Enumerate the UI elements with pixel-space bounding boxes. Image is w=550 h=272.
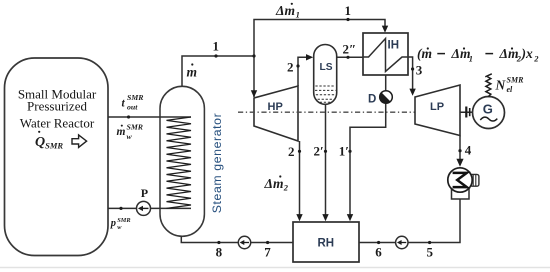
LS liquid fill	[315, 86, 335, 102]
arrow into RH from D	[347, 214, 353, 221]
node 8	[217, 241, 220, 244]
arrow into RH from HP	[296, 214, 302, 221]
generator G	[473, 97, 505, 129]
IH heat exchanger box	[363, 33, 408, 75]
svg-text:4: 4	[465, 142, 472, 157]
LS separator vessel	[314, 45, 337, 105]
condenser hotwell	[452, 176, 470, 199]
node 6	[377, 241, 380, 244]
svg-text:SMR: SMR	[507, 76, 525, 85]
node 7	[266, 241, 269, 244]
reactor vessel SMR	[5, 58, 109, 256]
wire: condensate to rail (5)	[359, 199, 460, 243]
svg-text:LS: LS	[320, 62, 333, 73]
arrow into IH top	[382, 26, 388, 33]
condensate pump	[396, 236, 408, 248]
node 4	[458, 149, 461, 152]
svg-text:(m: (m	[417, 46, 432, 61]
svg-text:G: G	[483, 101, 493, 116]
node on hot leg	[127, 115, 130, 118]
LP turbine	[415, 85, 460, 136]
junction node at riser	[252, 54, 255, 57]
svg-text:HP: HP	[268, 101, 283, 113]
condenser shell	[448, 168, 472, 192]
SG coil	[167, 117, 192, 208]
svg-text:1′: 1′	[339, 144, 349, 159]
HP turbine	[254, 86, 298, 141]
svg-text:6: 6	[375, 245, 382, 260]
svg-text:)x: )x	[520, 46, 533, 61]
arrow into RH from LS	[322, 214, 328, 221]
node 2'	[324, 150, 327, 153]
svg-text:w: w	[127, 132, 133, 141]
wire: SG steam outlet to riser	[182, 56, 254, 86]
wire: IH to LP (3)	[408, 57, 413, 91]
wire: LS vapor to IH (2'')	[337, 56, 363, 58]
svg-text:D: D	[368, 93, 376, 105]
electrical lead zigzag	[486, 77, 491, 97]
node on cold leg	[119, 207, 122, 210]
page rule at bottom	[0, 267, 550, 269]
svg-text:7: 7	[264, 245, 271, 260]
svg-text:Δm: Δm	[499, 46, 519, 61]
wire: LP exhaust to condenser (4)	[459, 136, 461, 162]
svg-text:Δm: Δm	[275, 3, 295, 18]
svg-text:m: m	[187, 65, 198, 80]
svg-text:Pressurized: Pressurized	[27, 99, 87, 114]
svg-text:RH: RH	[318, 237, 335, 249]
svg-text:1: 1	[296, 10, 300, 20]
arrow into condenser	[456, 159, 463, 167]
svg-text:1: 1	[469, 54, 473, 64]
wire: HP top to LS	[298, 57, 309, 86]
svg-text:m: m	[117, 126, 126, 138]
reactor label text	[18, 86, 97, 130]
svg-text:8: 8	[216, 245, 223, 260]
pump P	[137, 201, 151, 215]
svg-text:Water Reactor: Water Reactor	[20, 115, 95, 130]
node 1 on SG outlet	[214, 54, 217, 57]
node 2''	[346, 56, 349, 59]
steam generator vessel	[160, 86, 204, 236]
svg-text:N: N	[495, 78, 507, 93]
svg-text:2: 2	[288, 144, 295, 159]
heat arrow	[72, 135, 87, 148]
wire: feedwater rail RH to SG	[181, 236, 293, 242]
sine symbol	[480, 117, 497, 121]
wire: cold leg reactor to SG	[108, 207, 191, 209]
wire: LS drain to RH (2')	[325, 104, 327, 216]
svg-text:SMR: SMR	[117, 217, 130, 224]
svg-text:Steam generator: Steam generator	[210, 113, 224, 214]
node 1'	[348, 150, 351, 153]
svg-text:3: 3	[416, 63, 423, 78]
svg-text:p: p	[110, 218, 116, 229]
svg-text:P: P	[141, 186, 148, 200]
svg-text:2: 2	[287, 59, 294, 74]
svg-text:el: el	[507, 85, 514, 94]
node 5	[428, 241, 431, 244]
svg-text:LP: LP	[430, 101, 444, 113]
node 2 upper	[296, 64, 299, 67]
svg-text:1: 1	[345, 3, 352, 18]
RH reheater box	[293, 222, 359, 262]
svg-text:Δm: Δm	[264, 176, 284, 191]
condenser sigma coil	[453, 173, 467, 187]
svg-text:2″: 2″	[343, 42, 357, 57]
arrow into LP	[409, 89, 415, 96]
svg-text:1: 1	[213, 39, 220, 54]
svg-text:2: 2	[533, 54, 539, 64]
svg-text:5: 5	[427, 245, 434, 260]
svg-text:2′: 2′	[314, 144, 324, 159]
wire: riser and top rail dm1	[254, 20, 385, 98]
wire: IH drain through D to RH (1')	[385, 75, 387, 91]
drain valve D	[380, 91, 393, 104]
node 3	[411, 67, 414, 70]
arrow into LS	[306, 54, 313, 60]
condenser fan motor	[470, 174, 479, 186]
arrow into HP	[251, 90, 257, 97]
svg-text:SMR: SMR	[127, 123, 143, 132]
IH internal zigzag	[363, 39, 408, 72]
svg-text:out: out	[127, 103, 138, 112]
wire: HP exhaust down to RH (2)	[299, 141, 301, 217]
feedwater pump	[238, 236, 250, 248]
svg-text:Δm: Δm	[451, 46, 471, 61]
svg-text:SMR: SMR	[127, 93, 143, 102]
wire: hot leg reactor to SG	[108, 116, 191, 118]
svg-text:IH: IH	[388, 40, 400, 52]
shaft centerline	[238, 111, 497, 113]
node 2 lower	[298, 150, 301, 153]
shaft coupling	[461, 111, 473, 113]
node 1 on top rail	[346, 18, 349, 21]
svg-text:2: 2	[283, 183, 289, 193]
